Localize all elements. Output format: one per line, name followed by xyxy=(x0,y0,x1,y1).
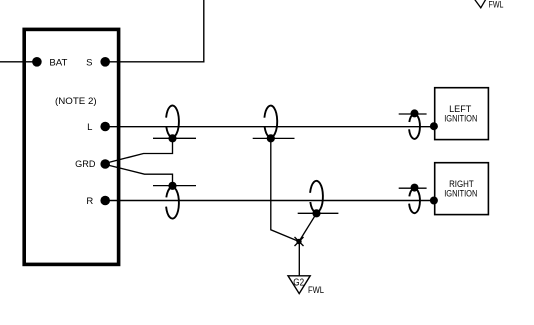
component box (NOTE 2 unit) xyxy=(24,29,118,264)
svg-text:IGNITION: IGNITION xyxy=(444,189,477,199)
shield S1 on L wire (loop above, bar below) xyxy=(153,105,196,142)
terminal dot BAT xyxy=(32,57,42,67)
wire R to RIGHT IGNITION xyxy=(105,200,434,202)
wire L to LEFT IGNITION xyxy=(105,126,434,128)
svg-text:BAT: BAT xyxy=(49,57,67,68)
svg-text:L: L xyxy=(87,122,92,133)
svg-text:IGNITION: IGNITION xyxy=(444,114,477,124)
wire junction X to ground xyxy=(298,242,300,276)
svg-text:GRD: GRD xyxy=(75,159,95,170)
wire GRD to shield S2 xyxy=(105,164,173,185)
wire BAT to left edge xyxy=(0,61,37,63)
shield S4 on R wire (loop above, bar below) xyxy=(298,181,339,218)
svg-text:G2: G2 xyxy=(293,278,304,289)
flag FWL top right xyxy=(475,0,504,9)
shield S3 on L wire (loop above, bar below) xyxy=(253,106,295,143)
terminal dot GRD xyxy=(100,159,110,169)
terminal dot L xyxy=(100,122,110,132)
shield S6 on R wire near RIGHT IGNITION (bar above, loop below) xyxy=(399,184,427,214)
wire shield S4 to junction X xyxy=(299,213,317,241)
svg-text:S: S xyxy=(86,57,92,68)
shield S2 on R wire (bar above, loop below) xyxy=(153,182,196,219)
shield S5 on L wire near LEFT IGNITION (bar above, loop below) xyxy=(399,109,427,138)
svg-text:FWL: FWL xyxy=(308,285,324,295)
terminal dot RIGHT IGNITION xyxy=(430,197,438,205)
junction X with dot xyxy=(295,237,304,246)
svg-text:LEFT: LEFT xyxy=(449,104,472,114)
wire S up to top edge xyxy=(105,0,204,62)
svg-text:FWL: FWL xyxy=(489,0,504,9)
svg-text:R: R xyxy=(86,196,93,207)
svg-text:RIGHT: RIGHT xyxy=(449,179,474,189)
svg-text:(NOTE 2): (NOTE 2) xyxy=(55,96,97,107)
ground triangle G2 xyxy=(288,276,310,294)
box RIGHT IGNITION xyxy=(435,163,489,215)
terminal dot R xyxy=(100,196,110,206)
terminal dot LEFT IGNITION xyxy=(430,122,438,130)
box LEFT IGNITION xyxy=(435,88,489,140)
terminal dot S xyxy=(100,57,110,67)
wire GRD to shield S1 xyxy=(105,138,173,163)
wire shield S3 to junction X xyxy=(271,138,299,241)
